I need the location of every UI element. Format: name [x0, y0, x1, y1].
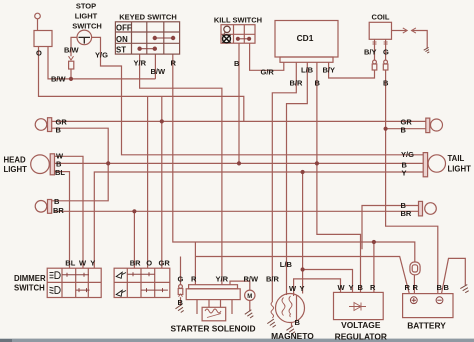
svg-text:HEAD: HEAD: [4, 156, 26, 165]
stop light switch inline connector body: [69, 61, 74, 69]
svg-text:STARTER SOLENOID: STARTER SOLENOID: [171, 324, 256, 334]
svg-text:B: B: [315, 79, 321, 88]
wire rear-right lamp B down to negative bus: [362, 206, 419, 250]
svg-text:B/R: B/R: [290, 79, 304, 88]
wire GR bus front and rear turn lamps: [52, 120, 426, 122]
svg-text:Y: Y: [402, 169, 407, 178]
svg-text:TAIL: TAIL: [448, 154, 465, 163]
magneto circle: [276, 294, 305, 323]
battery box: [403, 294, 453, 318]
wire solenoid R feed from R bus: [194, 242, 196, 285]
wire spark plug lead left part: [392, 30, 407, 32]
ground at battery negative: [460, 285, 470, 294]
keyed switch table: [115, 22, 179, 54]
svg-text:R/W: R/W: [244, 275, 260, 284]
rear-left turn lamp: [35, 200, 52, 214]
svg-text:OFF: OFF: [116, 23, 132, 32]
starter solenoid coil box: [202, 307, 226, 321]
wire B/Y: CD1 to ignition coil: [329, 62, 375, 78]
tail light lamp: [423, 153, 445, 177]
coil G bullet connector: [383, 60, 388, 70]
wire labels: [36, 46, 450, 328]
svg-text:KILL SWITCH: KILL SWITCH: [214, 16, 262, 25]
svg-text:SWITCH: SWITCH: [14, 284, 45, 293]
svg-text:DIMMER: DIMMER: [14, 274, 46, 283]
wire starter motor ground stub: [249, 301, 251, 312]
wire stop light switch left lead: [71, 37, 77, 56]
stop light switch inline connector arrow: [69, 56, 74, 60]
wire B/W horizontal from relay right pin: [48, 47, 155, 79]
svg-text:COIL: COIL: [372, 13, 390, 22]
kill switch table: [221, 25, 255, 44]
svg-text:LIGHT: LIGHT: [4, 165, 28, 174]
svg-text:SWITCH: SWITCH: [72, 22, 102, 31]
wire spark plug lead right part: [412, 31, 428, 49]
svg-text:Y: Y: [90, 258, 95, 267]
front-left turn lamp: [35, 118, 52, 132]
wire solenoid mounting legs: [197, 300, 232, 314]
svg-text:B/W: B/W: [151, 67, 167, 76]
wire coil B/Y pin stub: [374, 39, 376, 60]
ground at magneto pickup: [267, 319, 277, 329]
starter solenoid coil squiggle: [205, 309, 221, 313]
magneto pickup squiggle resistor: [271, 302, 274, 318]
svg-text:B: B: [401, 126, 407, 135]
svg-text:O: O: [146, 258, 152, 267]
ground at solenoid G: [176, 304, 186, 314]
svg-text:Y/G: Y/G: [401, 150, 414, 159]
svg-text:R: R: [370, 283, 376, 292]
regulator diode symbol: [349, 303, 366, 311]
svg-text:W: W: [79, 258, 87, 267]
magneto coil squiggles: [282, 296, 292, 317]
wire headlight W to dimmer switch: [55, 156, 84, 268]
coil pin ticks: [373, 42, 388, 44]
front-right turn lamp: [426, 118, 443, 133]
head light lamp: [31, 154, 55, 175]
svg-text:REGULATOR: REGULATOR: [335, 332, 387, 342]
svg-text:B/R: B/R: [266, 275, 280, 284]
svg-text:BR: BR: [53, 206, 64, 215]
svg-text:B: B: [437, 283, 443, 292]
svg-text:W: W: [338, 283, 346, 292]
ignition coil box: [369, 22, 391, 39]
svg-text:BL: BL: [55, 168, 65, 177]
svg-text:Y/R: Y/R: [134, 59, 147, 68]
starter solenoid top plate: [189, 285, 238, 289]
CD1 connector strip: [280, 57, 333, 62]
battery terminal minus: [436, 297, 443, 304]
svg-text:L/B: L/B: [301, 66, 314, 75]
svg-text:ON: ON: [116, 35, 128, 44]
battery terminal plus: [410, 297, 443, 304]
wire GR drop to turn signal switch: [161, 96, 163, 268]
wire stop light switch connector to B/W junction: [70, 69, 72, 79]
svg-text:B: B: [358, 283, 364, 292]
svg-text:G/R: G/R: [261, 68, 275, 77]
wire L/B: CD1 to magneto W pin: [287, 62, 308, 295]
wire front-right lamp B to coil B junction: [386, 128, 426, 130]
wire coil G/B down to battery negative: [386, 70, 438, 293]
turn signal right arrow icon: [116, 290, 126, 296]
svg-text:GR: GR: [159, 258, 171, 267]
wire coil G pin stub: [385, 39, 387, 60]
spark plug connector symbols: [403, 28, 416, 33]
wire relay top circle stub: [37, 19, 39, 31]
wire battery B2 to negative bus: [442, 258, 466, 293]
wire R net: keyed switch to fuse bus: [173, 54, 415, 262]
svg-text:LIGHT: LIGHT: [75, 12, 98, 21]
stop light switch plunger: [79, 37, 91, 43]
wire O net: flasher relay output to starter motor M: [39, 47, 244, 122]
svg-text:B/W: B/W: [64, 46, 80, 55]
wire solenoid coil stubs: [209, 300, 221, 308]
svg-text:B: B: [295, 318, 301, 327]
wire B/R: CD1 to magneto pickup resistor: [272, 62, 296, 302]
wire fuse to battery R: [413, 275, 415, 294]
svg-text:B: B: [444, 283, 450, 292]
wire starter cable battery to solenoid R: [195, 257, 409, 294]
dimmer switch contacts: [62, 273, 89, 277]
svg-text:B/Y: B/Y: [323, 66, 336, 75]
svg-text:Y/G: Y/G: [95, 51, 108, 60]
svg-text:G: G: [383, 48, 389, 57]
wire magneto B ground stub: [291, 322, 293, 328]
wire regulator R pin: [373, 242, 375, 292]
svg-text:Y: Y: [300, 284, 305, 293]
kill switch off icon (circled X): [223, 35, 231, 43]
svg-text:R: R: [405, 283, 411, 292]
svg-text:L/B: L/B: [280, 260, 293, 269]
starter solenoid body: [186, 289, 240, 300]
starter solenoid diagonal contact: [207, 314, 221, 318]
magneto chord: [296, 296, 298, 321]
svg-text:B/W: B/W: [51, 75, 67, 84]
svg-text:B: B: [178, 298, 184, 307]
dimmer switch table: [47, 268, 101, 297]
bottom photo edge band: [0, 339, 474, 342]
solenoid G bullet connector: [178, 285, 183, 297]
svg-text:KEYED SWITCH: KEYED SWITCH: [119, 13, 177, 22]
dimmer high beam icon: [50, 272, 61, 279]
CD1 box: [275, 21, 338, 58]
wire Y bus tail light to dimmer switch: [94, 172, 423, 268]
svg-text:B: B: [383, 79, 389, 88]
wire O drop to turn signal switch O pin: [147, 96, 149, 268]
kill switch run icon: [224, 26, 230, 34]
svg-text:B: B: [234, 59, 240, 68]
svg-text:M: M: [247, 294, 252, 300]
turn signal left arrow icon: [116, 272, 126, 278]
wire BR bus rear lamps: [55, 210, 419, 212]
starter motor M circle: [245, 290, 255, 300]
svg-text:STOP: STOP: [76, 2, 96, 11]
stop light switch SW1: [77, 30, 92, 45]
svg-text:R: R: [413, 283, 419, 292]
voltage regulator box: [334, 292, 384, 319]
svg-text:Y: Y: [349, 283, 354, 292]
ground at starter motor: [245, 310, 255, 320]
svg-text:W: W: [289, 284, 297, 293]
keyed switch position labels: [116, 23, 132, 54]
keyed switch contacts: [62, 36, 251, 292]
flasher relay top terminal circle: [35, 13, 41, 19]
wire Y/G net: stop light switch to tail light: [92, 37, 424, 154]
svg-text:R: R: [171, 59, 177, 68]
wire B bus headlight to tail light: [55, 162, 424, 164]
kill switch contacts: [238, 38, 249, 40]
wire G/R: kill switch to CD1 pin 1: [250, 43, 284, 70]
wire B: CD1 ground down to negative bus: [317, 62, 361, 292]
svg-text:O: O: [36, 49, 42, 58]
turn signal switch table: [114, 268, 170, 297]
wire regulator W pin: [294, 279, 341, 296]
svg-text:B: B: [56, 126, 62, 135]
wire Y/R net: keyed switch to starter solenoid: [140, 54, 222, 285]
svg-text:G: G: [178, 275, 184, 284]
flasher relay F1: [34, 31, 52, 47]
svg-text:B: B: [54, 197, 60, 206]
wire kill switch B to ground bus: [238, 43, 240, 163]
wire BR drop to turn signal switch: [133, 211, 135, 268]
svg-text:CD1: CD1: [297, 33, 314, 43]
svg-text:ST: ST: [116, 45, 126, 54]
wire headlight BL to dimmer switch: [55, 172, 70, 269]
wire solenoid G connector to ground: [180, 297, 182, 306]
svg-text:BR: BR: [130, 258, 141, 267]
svg-text:BR: BR: [401, 209, 412, 218]
svg-text:LIGHT: LIGHT: [448, 165, 472, 174]
wire keyed switch B/W column: [154, 54, 156, 79]
wire R/W solenoid output to starter motor: [230, 281, 250, 290]
ground at magneto B: [287, 326, 297, 336]
svg-text:VOLTAGE: VOLTAGE: [341, 320, 381, 330]
dimmer low beam icon: [50, 287, 61, 294]
wire solenoid G lead: [180, 257, 182, 285]
turn signal switch contacts: [127, 272, 154, 276]
wire magneto Y branch to regulator Y: [303, 270, 353, 293]
svg-text:B/Y: B/Y: [364, 48, 377, 57]
fuse F2: [410, 262, 420, 275]
wire front-left lamp B loop to rear-left lamp B: [52, 128, 108, 201]
rear-right turn lamp: [419, 201, 437, 216]
svg-text:Y/R: Y/R: [216, 275, 229, 284]
ground symbols: [176, 47, 471, 335]
magneto B lead: [291, 322, 293, 328]
svg-text:BL: BL: [65, 258, 75, 267]
coil B/Y bullet connector: [372, 60, 377, 70]
svg-text:BATTERY: BATTERY: [407, 321, 446, 331]
svg-text:MAGNETO: MAGNETO: [271, 331, 314, 341]
svg-text:R: R: [191, 275, 197, 284]
ground at spark plug: [424, 47, 431, 53]
wire magneto Y up to Y bus: [302, 172, 304, 294]
